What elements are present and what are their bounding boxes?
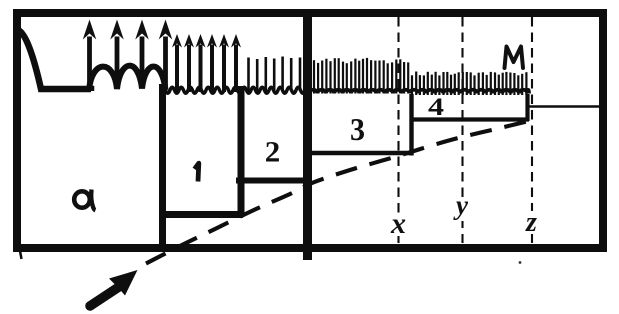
svg-text:z: z bbox=[525, 207, 537, 238]
svg-text:y: y bbox=[453, 190, 469, 220]
svg-text:x: x bbox=[390, 207, 406, 240]
svg-text:4: 4 bbox=[428, 94, 445, 121]
svg-text:3: 3 bbox=[350, 111, 365, 147]
svg-text:2: 2 bbox=[265, 136, 281, 169]
